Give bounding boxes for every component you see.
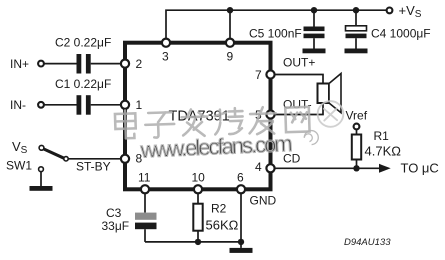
wire IN+ to C2 bbox=[45, 63, 77, 65]
resistor R2 bbox=[193, 204, 202, 231]
node junction R1/CD wire bbox=[353, 165, 359, 171]
svg-text:IN+: IN+ bbox=[10, 57, 29, 71]
op-amp U1 IC body TDA7391 bbox=[125, 43, 271, 190]
node junction pin6/bottom rail bbox=[238, 239, 244, 245]
pin 9 bbox=[226, 39, 234, 47]
svg-text:11: 11 bbox=[138, 170, 151, 184]
svg-text:R1: R1 bbox=[374, 129, 390, 143]
pin 2 bbox=[121, 60, 129, 68]
pin 7 bbox=[266, 70, 274, 78]
svg-text:OUT-: OUT- bbox=[283, 98, 312, 112]
arrow to uC bbox=[379, 164, 391, 173]
wire C3 to bottom rail bbox=[144, 229, 146, 242]
switch SW1 upper contact bbox=[39, 145, 44, 150]
terminal +VS bbox=[387, 7, 393, 13]
wire C4 stub bbox=[355, 10, 357, 26]
wire bottom rail bbox=[145, 241, 241, 243]
wire SW1 lower contact to ground bbox=[40, 172, 42, 186]
svg-text:C1 0.22μF: C1 0.22μF bbox=[55, 77, 111, 91]
svg-text:56KΩ: 56KΩ bbox=[206, 218, 239, 233]
svg-text:OUT+: OUT+ bbox=[283, 56, 315, 70]
pin 1 bbox=[121, 101, 129, 109]
svg-text:IN-: IN- bbox=[10, 98, 26, 112]
wire C1 to pin1 bbox=[91, 104, 120, 106]
wire top rail bbox=[166, 10, 388, 41]
terminal IN+ bbox=[38, 61, 44, 67]
watermark chinese characters bbox=[115, 101, 344, 139]
svg-text:R2: R2 bbox=[211, 202, 227, 216]
svg-text:7: 7 bbox=[255, 68, 262, 82]
pin 11 bbox=[141, 185, 149, 193]
svg-text:Vref: Vref bbox=[346, 109, 368, 123]
wire C2 to pin2 bbox=[91, 63, 120, 65]
svg-text:ST-BY: ST-BY bbox=[76, 160, 111, 174]
capacitor C1 bbox=[77, 95, 91, 115]
node junction C5/top rail bbox=[311, 7, 317, 13]
svg-text:9: 9 bbox=[227, 50, 234, 64]
node junction C4/top rail bbox=[353, 7, 359, 13]
switch SW1 lower contact bbox=[39, 167, 44, 172]
ground under SW1 bbox=[30, 186, 53, 191]
pin 10 bbox=[194, 185, 202, 193]
svg-text:33μF: 33μF bbox=[102, 219, 130, 233]
svg-text:C2 0.22μF: C2 0.22μF bbox=[55, 36, 111, 50]
wire pin11 to C3 bbox=[144, 193, 146, 212]
ground under C5 bbox=[303, 49, 326, 54]
wire ST-BY to pin8 bbox=[68, 158, 120, 160]
wire pin10 to R2 bbox=[197, 193, 199, 203]
svg-text:D94AU133: D94AU133 bbox=[344, 237, 391, 248]
svg-text:1: 1 bbox=[136, 98, 143, 112]
svg-text:C3: C3 bbox=[106, 206, 122, 220]
node junction R2/bottom rail bbox=[195, 239, 201, 245]
wire C5 to ground bbox=[313, 38, 315, 48]
svg-text:GND: GND bbox=[250, 194, 277, 208]
svg-text:10: 10 bbox=[192, 170, 206, 184]
wire Vref to R1 bbox=[356, 130, 358, 135]
pin 4 bbox=[266, 164, 274, 172]
svg-text:TO μC: TO μC bbox=[401, 161, 439, 176]
terminal Vref bbox=[354, 124, 360, 130]
svg-text:C4 1000μF: C4 1000μF bbox=[371, 27, 431, 41]
wire C4 to ground bbox=[355, 38, 357, 48]
watermark url www.elecfans.com bbox=[139, 130, 319, 163]
ground under C4 bbox=[345, 49, 368, 54]
capacitor C2 bbox=[77, 54, 91, 74]
wire pin9 riser bbox=[229, 10, 231, 41]
wire OUT+ bbox=[275, 75, 324, 84]
terminal IN- bbox=[38, 102, 44, 108]
speaker bbox=[318, 84, 330, 104]
wire OUT- bbox=[275, 103, 324, 115]
pin 6 bbox=[237, 185, 245, 193]
wire R1 to CD line bbox=[356, 160, 358, 169]
wire pin6 to ground bbox=[240, 193, 242, 248]
pin 3 bbox=[162, 39, 170, 47]
svg-text:6: 6 bbox=[237, 170, 244, 184]
svg-text:C5 100nF: C5 100nF bbox=[249, 27, 302, 41]
svg-text:SW1: SW1 bbox=[6, 158, 32, 172]
pin 8 bbox=[121, 155, 129, 163]
resistor R1 bbox=[352, 135, 361, 160]
wire IN- to C1 bbox=[45, 104, 77, 106]
capacitor C5 bbox=[304, 27, 325, 39]
pin 5 bbox=[266, 110, 274, 118]
wire R2 to bottom rail bbox=[197, 231, 199, 242]
switch SW1 blade bbox=[44, 149, 65, 158]
svg-text:3: 3 bbox=[162, 50, 169, 64]
ground under pin6 bbox=[230, 248, 253, 253]
wire C5 stub bbox=[313, 10, 315, 26]
svg-text:4: 4 bbox=[255, 160, 262, 174]
wire CD to microcontroller bbox=[275, 167, 381, 169]
svg-text:2: 2 bbox=[136, 57, 143, 71]
capacitor C3 (electrolytic) bbox=[135, 213, 157, 220]
svg-text:4.7KΩ: 4.7KΩ bbox=[365, 144, 402, 159]
switch SW1 common contact bbox=[64, 157, 68, 161]
node junction pin9/top rail bbox=[227, 7, 233, 13]
capacitor C4 (electrolytic) bbox=[346, 26, 367, 31]
